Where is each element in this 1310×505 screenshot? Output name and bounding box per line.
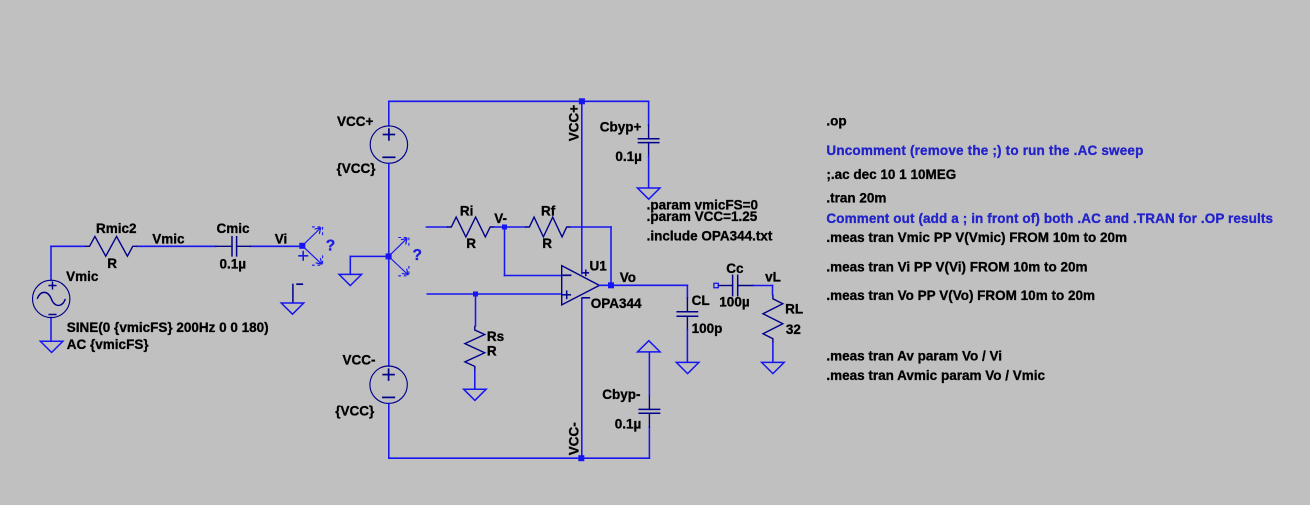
svg-text:Comment out (add a ; in front: Comment out (add a ; in front of) both .… — [826, 211, 1273, 226]
svg-text:R: R — [466, 236, 476, 251]
svg-text:Vmic: Vmic — [66, 269, 99, 284]
svg-text:SINE(0 {vmicFS} 200Hz 0 0 180): SINE(0 {vmicFS} 200Hz 0 0 180) — [67, 320, 269, 335]
svg-text:OPA344: OPA344 — [591, 296, 642, 311]
svg-text:?: ? — [413, 247, 422, 264]
svg-text:.meas tran Vmic PP V(Vmic) FRO: .meas tran Vmic PP V(Vmic) FROM 10m to 2… — [826, 230, 1127, 245]
svg-text:{VCC}: {VCC} — [337, 161, 377, 176]
svg-text:.meas tran Vo PP V(Vo) FROM 10: .meas tran Vo PP V(Vo) FROM 10m to 20m — [826, 288, 1095, 303]
svg-text:Vo: Vo — [620, 270, 636, 285]
svg-text:{VCC}: {VCC} — [335, 404, 375, 419]
svg-text:Uncomment (remove the ;) to ru: Uncomment (remove the ;) to run the .AC … — [826, 143, 1143, 158]
svg-text:;.ac dec 10 1 10MEG: ;.ac dec 10 1 10MEG — [826, 167, 956, 182]
svg-text:R: R — [487, 343, 497, 358]
svg-text:.param VCC=1.25: .param VCC=1.25 — [647, 209, 758, 224]
svg-text:R: R — [107, 256, 117, 271]
svg-text:.op: .op — [826, 114, 846, 129]
svg-text:.meas tran Av param Vo / Vi: .meas tran Av param Vo / Vi — [826, 349, 1002, 364]
svg-text:.meas tran Vi PP V(Vi) FROM 10: .meas tran Vi PP V(Vi) FROM 10m to 20m — [826, 260, 1087, 275]
svg-text:Cc: Cc — [726, 261, 744, 276]
svg-text:Ri: Ri — [460, 204, 474, 219]
svg-text:Rs: Rs — [487, 329, 504, 344]
svg-text:Cbyp-: Cbyp- — [602, 387, 640, 402]
svg-text:VCC-: VCC- — [567, 422, 582, 455]
svg-text:RL: RL — [785, 301, 803, 316]
svg-text:32: 32 — [786, 322, 801, 337]
svg-text:.meas tran Avmic param Vo / Vm: .meas tran Avmic param Vo / Vmic — [826, 368, 1045, 383]
svg-text:AC {vmicFS}: AC {vmicFS} — [67, 337, 150, 352]
svg-text:Rf: Rf — [541, 204, 556, 219]
svg-text:CL: CL — [692, 293, 710, 308]
svg-text:.include OPA344.txt: .include OPA344.txt — [647, 229, 773, 244]
svg-text:vL: vL — [765, 269, 781, 284]
svg-text:Cmic: Cmic — [217, 221, 251, 236]
svg-text:100µ: 100µ — [719, 294, 749, 309]
svg-text:V-: V- — [494, 211, 507, 226]
svg-text:.tran 20m: .tran 20m — [826, 191, 886, 206]
svg-text:0.1µ: 0.1µ — [615, 416, 642, 431]
svg-text:VCC+: VCC+ — [337, 114, 374, 129]
svg-text:100p: 100p — [692, 321, 723, 336]
svg-text:0.1µ: 0.1µ — [220, 257, 247, 272]
svg-text:Rmic2: Rmic2 — [96, 221, 137, 236]
svg-text:VCC-: VCC- — [343, 353, 376, 368]
svg-text:?: ? — [326, 238, 335, 255]
svg-text:Cbyp+: Cbyp+ — [600, 119, 642, 134]
svg-text:Vmic: Vmic — [152, 232, 185, 247]
svg-text:R: R — [542, 236, 552, 251]
svg-text:Vi: Vi — [275, 232, 288, 247]
svg-text:U1: U1 — [590, 258, 608, 273]
svg-text:VCC+: VCC+ — [567, 105, 582, 142]
svg-text:0.1µ: 0.1µ — [615, 149, 642, 164]
